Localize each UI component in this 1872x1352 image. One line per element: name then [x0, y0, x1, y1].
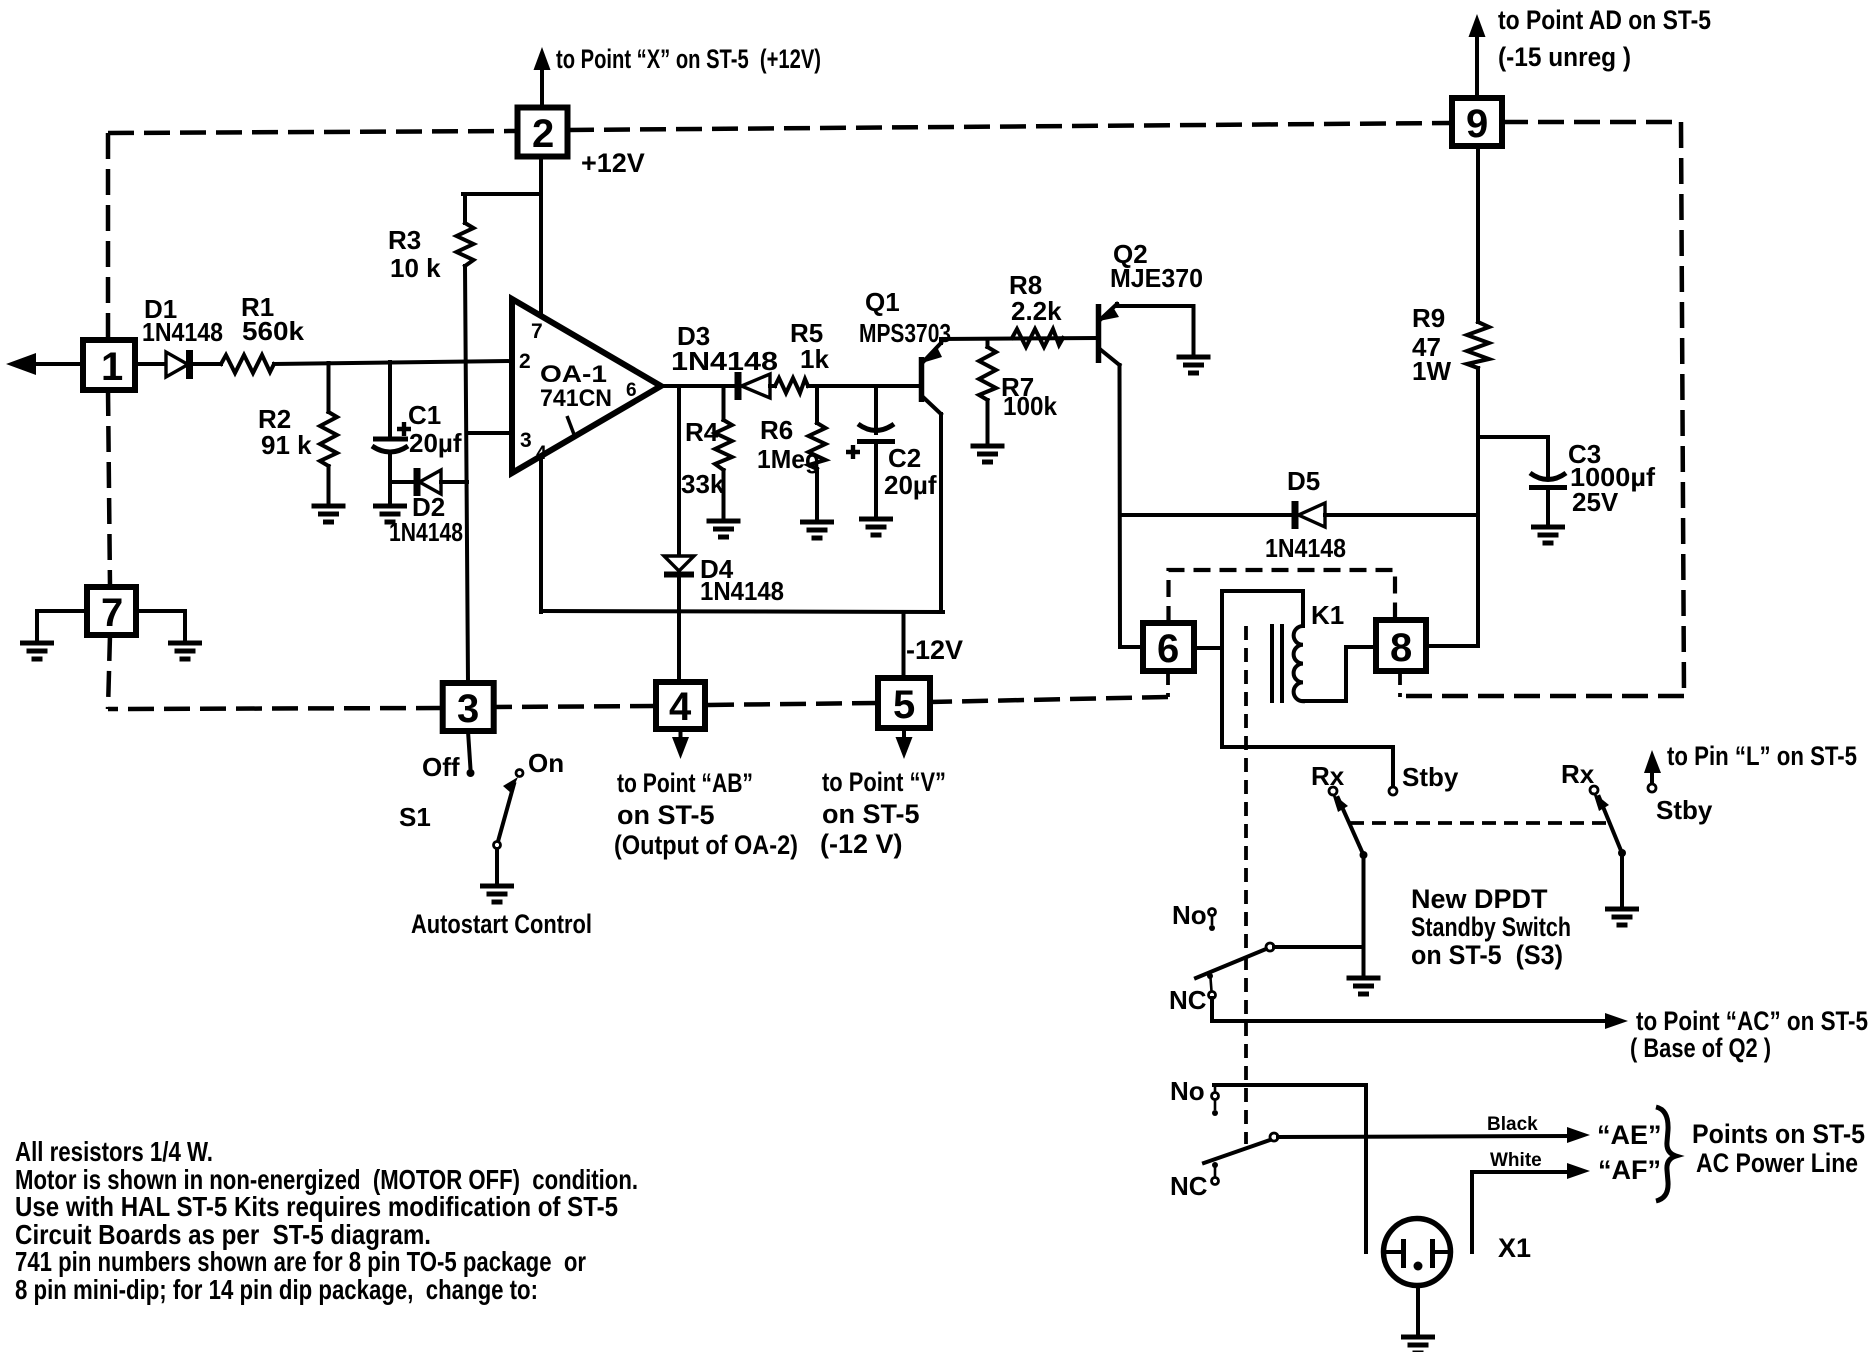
wire NC pole 1 to AC arrow: [1212, 998, 1609, 1021]
svg-text:to Point “V”: to Point “V”: [822, 767, 946, 797]
ground below C3: [1531, 527, 1565, 543]
ground below R7: [971, 446, 1005, 462]
svg-text:1k: 1k: [800, 344, 829, 374]
svg-text:“AE”: “AE”: [1597, 1120, 1662, 1150]
svg-text:on ST-5: on ST-5: [822, 799, 920, 829]
svg-text:Rx: Rx: [1311, 761, 1345, 791]
transistor Q1: [922, 339, 943, 612]
svg-text:741 pin numbers shown are for: 741 pin numbers shown are for 8 pin TO-5…: [15, 1246, 586, 1277]
svg-text:25V: 25V: [1572, 487, 1619, 517]
svg-text:Stby: Stby: [1402, 762, 1459, 792]
wire No pole 2 to X1: [1214, 1085, 1366, 1252]
node 9: [1452, 98, 1502, 146]
svg-text:AC Power Line: AC Power Line: [1696, 1148, 1858, 1178]
svg-text:to Point AD on ST-5: to Point AD on ST-5: [1498, 5, 1711, 35]
wire Q2 collector to box 6: [1120, 645, 1143, 649]
svg-text:All resistors 1/4 W.: All resistors 1/4 W.: [15, 1136, 213, 1167]
svg-text:R4: R4: [685, 417, 719, 447]
wire dashed left border lower: [108, 635, 110, 709]
wire D5 row left: [1120, 513, 1294, 517]
node 2: [518, 108, 568, 157]
connector X1: [1384, 1219, 1451, 1286]
svg-text:R9: R9: [1412, 303, 1445, 333]
wire R1 to op-amp pin 2: [274, 361, 513, 364]
stray mark inside op-amp: [567, 416, 575, 437]
relay pole 1 common contact: [1266, 943, 1274, 951]
arrow to Point X: [534, 47, 551, 70]
arrow left output: [6, 353, 36, 375]
wire relay coil bottom to box 8: [1303, 647, 1376, 701]
svg-text:Points on ST-5: Points on ST-5: [1692, 1119, 1865, 1149]
svg-text:on ST-5: on ST-5: [617, 800, 715, 830]
svg-text:to Pin “L” on ST-5: to Pin “L” on ST-5: [1667, 741, 1857, 771]
wire output to left: [30, 362, 83, 366]
svg-text:9: 9: [1466, 102, 1488, 146]
svg-text:4: 4: [536, 443, 547, 464]
wire pole 1 common: [1274, 945, 1364, 949]
wire R5 to Q1 base: [808, 384, 919, 388]
svg-text:Black: Black: [1487, 1114, 1538, 1135]
wire pin 6 output: [661, 384, 737, 388]
svg-text:1W: 1W: [1412, 356, 1451, 386]
wire +12V feed to R3: [463, 192, 541, 196]
svg-text:91 k: 91 k: [261, 430, 312, 460]
capacitor C2: [846, 386, 895, 519]
diode D2: [390, 468, 467, 496]
arrow to Pin L: [1644, 750, 1661, 792]
svg-text:R6: R6: [760, 415, 793, 445]
diode D5: [1295, 501, 1325, 529]
wire box 2 arrow up: [540, 68, 544, 107]
svg-text:Q1: Q1: [865, 287, 900, 317]
relay contact NC pole 2: [1212, 1162, 1219, 1185]
svg-text:“AF”: “AF”: [1598, 1155, 1661, 1185]
relay pole 2 common contact: [1270, 1133, 1278, 1141]
svg-text:No: No: [1170, 1076, 1205, 1106]
switch S3 pole A Rx contact: [1329, 787, 1337, 795]
wire dashed bottom bus box4-box5: [705, 703, 878, 705]
wire box7 left: [37, 611, 87, 643]
wire box 9 arrow up: [1475, 36, 1479, 97]
svg-text:8 pin mini-dip; for 14 pin dip: 8 pin mini-dip; for 14 pin dip package, …: [15, 1274, 538, 1305]
relay mechanical link dashed: [1244, 626, 1248, 1144]
wire Q1 emitter to Q2 base: [941, 338, 1096, 339]
ground below C1: [373, 506, 407, 522]
wire S3 pole A to ground: [1362, 855, 1366, 978]
wire op-amp pin 3: [467, 431, 513, 435]
relay contact No pole 1: [1209, 909, 1216, 932]
ground S3 pole A: [1347, 978, 1381, 994]
svg-text:Stby: Stby: [1656, 795, 1713, 825]
wire dashed bottom bus box3-box4: [494, 706, 656, 707]
svg-text:-12V: -12V: [906, 635, 963, 665]
svg-text:7: 7: [101, 591, 123, 635]
svg-text:MJE370: MJE370: [1110, 263, 1203, 293]
svg-text:Rx: Rx: [1561, 759, 1595, 789]
switch S3 pole B arm: [1593, 792, 1626, 857]
node 3: [443, 683, 494, 731]
relay K1 core: [1272, 626, 1282, 701]
svg-text:( Base of Q2 ): ( Base of Q2 ): [1630, 1033, 1771, 1063]
svg-text:2: 2: [532, 112, 554, 156]
relay K1 coil: [1294, 626, 1303, 701]
wire dashed top bus left: [108, 131, 517, 133]
transistor Q2: [1099, 304, 1121, 647]
svg-text:New DPDT: New DPDT: [1411, 884, 1548, 914]
svg-text:4: 4: [669, 685, 692, 729]
svg-text:(-12 V): (-12 V): [820, 829, 903, 859]
relay contact NC pole 1: [1207, 973, 1216, 999]
ground below R2: [312, 506, 346, 522]
svg-text:560k: 560k: [242, 316, 305, 346]
ground right of box 7: [168, 643, 202, 659]
capacitor C1: [372, 362, 411, 506]
svg-text:to Point “AC” on ST-5: to Point “AC” on ST-5: [1636, 1006, 1868, 1036]
svg-text:On: On: [528, 748, 564, 778]
svg-text:+12V: +12V: [581, 148, 645, 178]
svg-text:1: 1: [101, 345, 123, 389]
svg-text:D5: D5: [1287, 466, 1320, 496]
resistor R2: [320, 363, 337, 506]
svg-text:(-15 unreg ): (-15 unreg ): [1498, 42, 1631, 72]
resistor R7: [979, 339, 996, 446]
wire dashed bottom bus right of box 8: [1404, 694, 1684, 699]
wire S1 to ground: [495, 849, 499, 886]
wire bottom rail -12V: [541, 611, 943, 612]
svg-text:3: 3: [520, 429, 532, 452]
resistor R5: [775, 378, 808, 393]
svg-text:No: No: [1172, 900, 1207, 930]
wire X1 to ground: [1416, 1286, 1420, 1338]
ground below C2: [859, 519, 893, 535]
node 8 box: [1376, 620, 1426, 671]
wire R3 down through node to box 3: [465, 266, 468, 683]
wire dashed top bus middle: [568, 123, 1452, 130]
resistor R6: [809, 386, 826, 522]
svg-text:to Point “AB”: to Point “AB”: [617, 768, 753, 798]
svg-text:1N4148: 1N4148: [142, 317, 223, 347]
wire box 3 to Off contact: [468, 731, 471, 769]
wire relay bottom rail to Stby: [1222, 747, 1393, 786]
svg-text:Off: Off: [422, 752, 460, 782]
svg-text:1N4148: 1N4148: [700, 576, 784, 606]
wire dashed bottom bus box5-box6: [930, 697, 1168, 702]
svg-text:Autostart Control: Autostart Control: [411, 909, 592, 939]
node 5: [878, 678, 930, 728]
node 1: [83, 340, 135, 390]
svg-text:S1: S1: [399, 802, 431, 832]
resistor R8: [1012, 329, 1063, 347]
op-amp U1 OA-1 741CN: [512, 299, 661, 473]
svg-text:to Point “X” on ST-5 (+12V): to Point “X” on ST-5 (+12V): [556, 44, 821, 74]
svg-text:1N4148: 1N4148: [389, 517, 463, 547]
capacitor C3: [1478, 437, 1567, 527]
wire box 6 to relay riser: [1194, 646, 1222, 650]
node 6 box: [1143, 623, 1194, 671]
arrow to Point AD: [1469, 14, 1486, 37]
svg-text:100k: 100k: [1003, 391, 1058, 421]
arrow to Point V: [896, 737, 913, 759]
svg-text:MPS3703: MPS3703: [859, 318, 951, 348]
wire White to AF: [1472, 1172, 1572, 1252]
arrow to Point AB: [672, 737, 689, 759]
relay contact No pole 2: [1212, 1085, 1219, 1116]
ground below X1: [1401, 1337, 1435, 1352]
svg-text:White: White: [1490, 1150, 1542, 1171]
node 4: [656, 682, 705, 729]
svg-text:1Meg: 1Meg: [757, 444, 820, 474]
svg-text:Use with HAL ST-5 Kits require: Use with HAL ST-5 Kits requires modifica…: [15, 1191, 618, 1222]
arrow AE: [1567, 1127, 1590, 1143]
arrow AF: [1567, 1163, 1590, 1179]
wire dashed relay frame: [1169, 570, 1396, 623]
resistor R3: [457, 194, 474, 266]
svg-text:6: 6: [626, 380, 637, 401]
switch S3 pole B Rx contact: [1590, 786, 1598, 794]
svg-text:C1: C1: [408, 400, 441, 430]
ground below Q2 emitter: [1177, 357, 1211, 373]
ground below R4: [707, 521, 741, 537]
svg-text:10 k: 10 k: [390, 253, 441, 283]
svg-text:6: 6: [1157, 627, 1179, 671]
svg-text:X1: X1: [1498, 1233, 1531, 1263]
ground below R6: [800, 522, 834, 538]
relay pole 1 arm: [1196, 949, 1266, 978]
wire box 4 arrow: [679, 729, 683, 738]
wire relay riser: [1220, 591, 1224, 747]
wire box7 right: [136, 611, 185, 643]
wire dashed bottom bus left: [108, 708, 442, 709]
svg-text:NC: NC: [1169, 985, 1207, 1015]
svg-text:(Output of OA-2): (Output of OA-2): [614, 830, 798, 860]
arrow to Point AC: [1605, 1013, 1628, 1029]
svg-text:C2: C2: [888, 443, 921, 473]
wire box 5 arrow: [902, 728, 906, 738]
svg-text:2: 2: [519, 350, 531, 373]
svg-text:20µf: 20µf: [884, 470, 937, 500]
switch S1 arm: [494, 777, 519, 849]
svg-text:R3: R3: [388, 225, 421, 255]
wire dashed left border upper: [106, 133, 111, 340]
wire relay top: [1222, 591, 1303, 626]
svg-text:20µf: 20µf: [409, 428, 462, 458]
S3 mechanical link dashed: [1350, 821, 1610, 825]
resistor R1: [221, 355, 274, 373]
switch S3 pole A arm: [1332, 793, 1368, 859]
diode D1: [135, 350, 221, 379]
diode D4: [664, 386, 694, 682]
svg-text:on ST-5 (S3): on ST-5 (S3): [1411, 940, 1563, 970]
node 7: [87, 587, 136, 635]
switch S1 On contact: [516, 770, 523, 777]
wire box 8 to R9 line: [1426, 644, 1478, 648]
wire box 5 riser: [902, 612, 906, 678]
brace Points on ST-5: [1656, 1107, 1676, 1201]
svg-text:1N4148: 1N4148: [1265, 533, 1346, 563]
svg-text:33k: 33k: [681, 469, 725, 499]
wire dashed stub below box 8: [1398, 671, 1402, 697]
wire op-amp pin 4: [539, 456, 543, 612]
wire dashed stub below box 6: [1166, 671, 1170, 697]
wire Q2 emitter to ground: [1117, 304, 1194, 357]
wire dashed top bus right: [1502, 120, 1680, 125]
svg-text:8: 8: [1390, 626, 1412, 670]
switch S1 Off contact: [467, 769, 475, 777]
svg-text:2.2k: 2.2k: [1011, 296, 1062, 326]
wire Black to AE: [1278, 1136, 1572, 1137]
resistor R4: [715, 386, 732, 521]
svg-text:5: 5: [893, 683, 915, 727]
ground below S1: [480, 886, 514, 902]
svg-text:1N4148: 1N4148: [671, 346, 778, 376]
svg-text:Standby Switch: Standby Switch: [1411, 912, 1571, 942]
wire op-amp pin 7 supply: [539, 156, 543, 316]
resistor R9: [1467, 146, 1489, 646]
ground left of box 7: [20, 643, 54, 659]
switch S3 pole A Stby contact: [1389, 787, 1397, 795]
wire S3 pole B to ground: [1620, 853, 1624, 909]
wire dashed right border: [1681, 122, 1684, 696]
diode D3: [738, 372, 775, 400]
ground S3 pole B: [1605, 909, 1639, 925]
svg-text:OA-1: OA-1: [540, 361, 607, 388]
wire D5 row right: [1325, 513, 1478, 517]
svg-text:741CN: 741CN: [540, 385, 612, 412]
svg-text:3: 3: [457, 687, 479, 731]
svg-text:K1: K1: [1311, 600, 1344, 630]
wire dashed left border middle: [108, 390, 110, 587]
svg-text:NC: NC: [1170, 1171, 1208, 1201]
svg-text:7: 7: [531, 320, 543, 343]
relay pole 2 arm: [1204, 1140, 1270, 1163]
